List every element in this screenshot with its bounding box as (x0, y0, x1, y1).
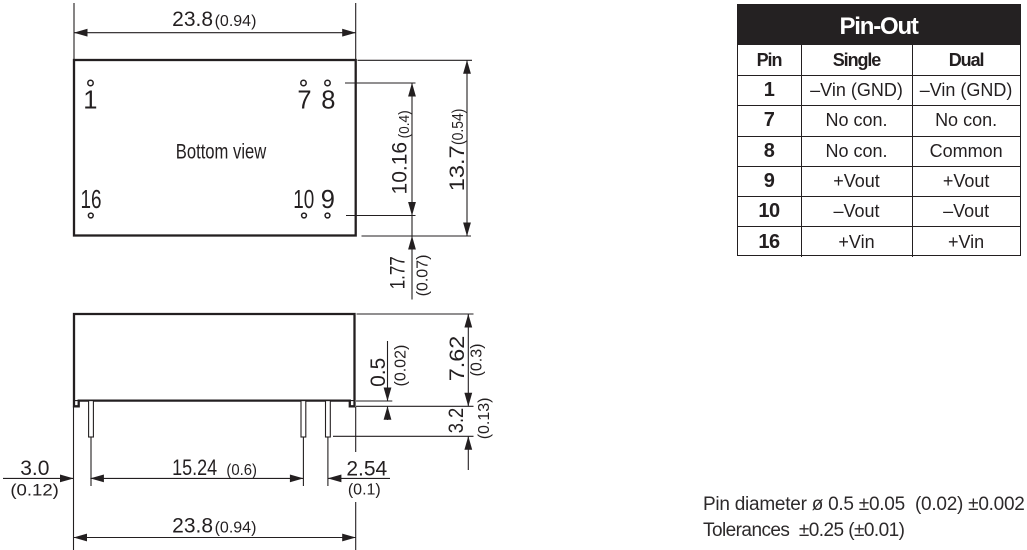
svg-text:3.0: 3.0 (20, 457, 49, 480)
dimension 1.77 (0.07): value label (387, 255, 432, 297)
table header Pin-Out (738, 5, 1020, 45)
pin 10 label (293, 186, 314, 214)
svg-text:(0.13): (0.13) (476, 398, 493, 440)
dimension 3.2 (0.13): lower arrow (467, 436, 469, 470)
svg-text:7: 7 (297, 86, 311, 114)
side view right edge extension line (355, 407, 357, 550)
dimension 13.7 (0.54): dimension line with arrows (466, 60, 468, 236)
svg-text:Bottom view: Bottom view (176, 140, 267, 163)
svg-text:10.16: 10.16 (389, 142, 412, 195)
side view pin 1 (89, 401, 94, 437)
dimension 2.54 (0.1): value label (346, 458, 387, 499)
table row pin 9 (738, 166, 1020, 196)
dimension 3.2 (0.13): value label (445, 398, 493, 440)
svg-text:(0.3): (0.3) (469, 344, 486, 377)
dimension 23.8 (0.94) top: dimension line with arrows (74, 32, 356, 34)
pin 10 hole (302, 213, 307, 218)
side view pin tip extension line (333, 435, 474, 437)
dimension 15.24 (0.6): value label (172, 455, 257, 480)
side view bottom line (74, 400, 355, 402)
svg-text:23.8: 23.8 (172, 8, 213, 31)
dimension 13.7 (0.54): value label (446, 109, 469, 192)
dimension 3.0 (0.12): leader with arrow (3, 477, 74, 479)
dimension 0.5 (0.02): upper arrow and fraction bar (387, 341, 389, 401)
dimension 13.7 (0.54): extension line from top edge (358, 59, 473, 61)
dimension 7.62 (0.3): dimension line with arrows (467, 314, 469, 406)
svg-text:(0.94): (0.94) (215, 519, 257, 536)
dimension 2.54 (0.1): leader with arrow (328, 477, 390, 479)
svg-text:1.77: 1.77 (387, 256, 410, 289)
side view pin 16 centerline (302, 437, 304, 486)
table row pin 1 (738, 75, 1020, 105)
pin 16 label (81, 186, 102, 214)
pin 8 label (321, 86, 335, 114)
pin 1 hole (88, 80, 93, 85)
svg-text:(0.94): (0.94) (215, 13, 257, 30)
svg-text:16: 16 (81, 186, 102, 214)
pin 8 hole (325, 80, 330, 85)
side view standoff extension line (356, 405, 474, 407)
dimension 10.16 (0.4): extension line from pins 7/8 (345, 82, 416, 84)
dimension 23.8 (0.94) bottom: value label (172, 514, 256, 537)
svg-text:8: 8 (321, 86, 335, 114)
svg-text:10: 10 (293, 186, 314, 214)
side view pin 1 centerline (90, 437, 92, 486)
side view top edge extension line (357, 313, 474, 315)
dimension 10.16 (0.4): value label (389, 110, 414, 194)
dimension 13.7 (0.54): extension line from bottom edge (362, 235, 472, 237)
pin 1 label (83, 86, 97, 114)
svg-text:3.2: 3.2 (445, 408, 468, 434)
side view pin 9/10 (326, 401, 331, 437)
side view left edge extension line (73, 406, 75, 550)
side view pin 16 (301, 401, 306, 437)
svg-text:15.24: 15.24 (172, 455, 217, 480)
bottom view caption (176, 140, 267, 163)
dimension 7.62 (0.3): value label (446, 336, 486, 382)
svg-text:23.8: 23.8 (172, 514, 213, 537)
dimension 23.8 (0.94) bottom: dimension line with arrows (74, 537, 356, 539)
svg-text:7.62: 7.62 (446, 336, 469, 382)
dimension 23.8 (0.94) top: value label (172, 8, 256, 31)
svg-text:(0.6): (0.6) (226, 462, 257, 479)
svg-text:13.7: 13.7 (446, 145, 469, 191)
table row pin 10 (738, 196, 1020, 226)
svg-text:(0.02): (0.02) (393, 345, 410, 387)
pin 7 label (297, 86, 311, 114)
dimension 10.16 (0.4): extension line from pins 10/9 (346, 215, 416, 217)
table row pin 16 (738, 226, 1020, 256)
table column headers (738, 45, 1020, 75)
side view body outline (74, 314, 355, 406)
pin-out table (737, 4, 1021, 256)
svg-text:(0.4): (0.4) (396, 110, 413, 138)
side view pin 9/10 centerline (327, 437, 329, 486)
pin 9 label (321, 186, 335, 214)
table row pin 8 (738, 136, 1020, 166)
svg-text:(0.12): (0.12) (10, 481, 58, 500)
svg-text:9: 9 (321, 186, 335, 214)
svg-text:(0.1): (0.1) (348, 482, 381, 499)
dimension 1.77 (0.07): leader with arrow (411, 236, 413, 300)
pin 9 hole (325, 213, 330, 218)
side view body bottom extension line (356, 400, 392, 402)
dimension 23.8 (0.94) top: extension lines (74, 3, 356, 59)
dimension 3.0 (0.12): value label (10, 457, 58, 499)
dimension 0.5 (0.02): value label (367, 345, 410, 387)
tolerance notes (703, 494, 1025, 546)
table row pin 7 (738, 105, 1020, 135)
pin 7 hole (301, 80, 306, 85)
svg-text:(0.07): (0.07) (415, 255, 432, 297)
dimension 0.5 (0.02): lower arrow (387, 406, 389, 420)
dimension 15.24 (0.6): dimension line with arrows (90, 477, 303, 479)
svg-text:0.5: 0.5 (367, 358, 390, 387)
svg-text:1: 1 (83, 86, 97, 114)
pin 16 hole (88, 213, 93, 218)
svg-text:(0.54): (0.54) (450, 109, 467, 146)
dimension 10.16 (0.4): dimension line with arrows (411, 83, 413, 236)
svg-text:2.54: 2.54 (346, 458, 387, 481)
bottom view body outline (74, 60, 356, 236)
